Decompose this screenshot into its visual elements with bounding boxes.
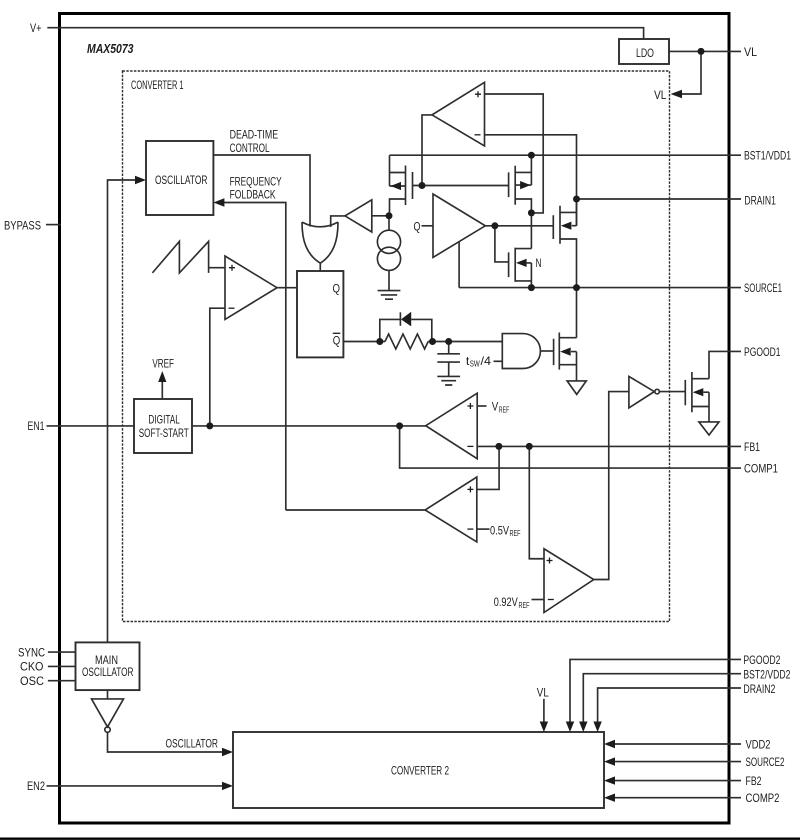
wire SOURCE2 [613,761,741,763]
svg-text:BST2/VDD2: BST2/VDD2 [743,668,790,682]
capacitor C1 [437,342,460,377]
svg-text:CONVERTER 2: CONVERTER 2 [391,764,449,778]
wire main osc to inverter [107,690,109,699]
wire driver node down to M3 gate [495,226,509,262]
op-amp 0.92VREF comparator [544,549,594,613]
node DRAIN1 junction [573,196,580,203]
wire driver output to M4 gate [485,225,553,227]
transistor M5 tSW nmos [554,288,577,381]
svg-text:FOLDBACK: FOLDBACK [230,188,276,202]
minus sign PWM comparator [229,307,235,309]
svg-text:VL: VL [537,685,549,699]
arrowhead VL into converter2 [540,722,548,733]
wire main-osc to oscillator arrow [108,180,138,642]
svg-text:PGOOD2: PGOOD2 [743,653,780,667]
node M2 drain [528,209,535,216]
transistor M1 pmos left [390,155,423,216]
plus sign top comparator [475,91,481,97]
svg-text:LDO: LDO [636,46,654,60]
svg-text:SOURCE2: SOURCE2 [746,755,785,769]
ground triangle GT1 [567,381,586,395]
wire COMP1 [400,426,741,468]
pin stub CKO [48,665,76,667]
wire Q stub to driver [422,225,434,227]
wire SOURCE1 rail [459,287,741,289]
wire gate node M1-M2 [422,185,509,187]
node VL junction [698,48,705,55]
wire oscillator to converter2 [108,732,225,752]
wire current source to ground [388,270,390,290]
Qbar overline [333,332,341,334]
node BST1 junction [528,152,535,159]
svg-text:0.92V: 0.92V [494,595,518,609]
svg-text:OSCILLATOR: OSCILLATOR [155,173,208,187]
arrowhead FB2 [604,776,615,784]
arrowhead EN2 [222,782,233,790]
arrowhead oscillator to converter2 [222,748,233,756]
svg-text:VL: VL [744,45,757,59]
node SOURCE1 right [573,284,580,291]
svg-text:0.5V: 0.5V [490,523,509,537]
svg-text:OSC: OSC [20,674,44,688]
node gate M1-M2 [419,182,426,189]
plus sign error amp [467,403,473,409]
wire PGOOD2 [570,659,741,723]
arrowhead into oscillator [135,176,146,184]
wire DRAIN1 rail [577,198,742,200]
svg-text:V+: V+ [30,21,42,35]
arrowhead into converter1 VL [671,90,683,98]
wire FB1 rail [477,445,741,447]
ground GND2 [437,376,460,385]
ground triangle GT2 [699,422,719,435]
svg-text:SOFT-START: SOFT-START [139,426,189,440]
arrowhead SOURCE2 [604,757,615,765]
minus sign top comparator [475,134,481,136]
inverter INV1 [629,376,654,408]
svg-text:SW: SW [470,359,480,369]
wire BST1/VDD1 rail [390,154,742,156]
oscillator box U-OSC1 [146,141,213,215]
wire sawtooth to PWM + [209,267,225,269]
wire EN2 [47,785,225,787]
svg-text:COMP2: COMP2 [746,791,780,805]
svg-text:FB2: FB2 [746,774,762,788]
wire VREF arrow from soft-start [161,382,163,399]
pin stub BYPASS [46,224,61,226]
wire buffer input node [372,215,389,217]
svg-text:OSCILLATOR: OSCILLATOR [166,737,219,751]
resistor R1 [385,334,428,349]
svg-text:CONVERTER 1: CONVERTER 1 [131,78,184,92]
svg-text:COMP1: COMP1 [744,462,778,476]
digital soft-start box U-DSS [134,399,192,453]
svg-text:DRAIN1: DRAIN1 [744,194,776,208]
pin stub SYNC [48,651,76,653]
wire top comparator minus input [485,135,577,226]
svg-text:VDD2: VDD2 [746,738,771,752]
LDO U-LDO [619,39,669,64]
bottom rule [0,838,800,840]
op-amp top comparator [432,82,485,146]
driver amp A1 [433,194,485,257]
transistor M4 output nmos [553,199,576,288]
current source I1 [377,230,400,253]
arrowhead frequency foldback [213,198,224,206]
svg-text:EN2: EN2 [27,779,45,793]
pin stub OSC [48,680,76,682]
wire tSW/4 stub [494,360,503,362]
transistor M6 pgood nmos [685,372,709,422]
inverter INV2 [92,699,124,727]
diode D1 bypass wire [380,319,432,341]
wire VL feed to converter1 [673,51,701,94]
arrowhead DRAIN2 down [593,722,601,733]
svg-text:BYPASS: BYPASS [4,218,41,232]
svg-text:SYNC: SYNC [18,645,45,659]
node FB1 right [526,443,533,450]
node Qbar right [445,338,452,345]
wire frequency foldback [222,203,286,511]
wire EN1 node to PWM minus [210,308,225,426]
transistor M3 arrow [516,259,527,267]
arrowhead COMP2 [604,794,615,802]
arrowhead BST2 down [579,722,587,733]
wire VDD2 [613,743,741,745]
svg-text:V: V [492,400,499,414]
wire top comparator plus input [485,94,544,213]
node Qbar left [376,338,383,345]
wire 0.5comp plus to FB1 [477,446,499,489]
transistor M4 arrow [561,222,572,230]
svg-text:REF: REF [510,528,521,538]
svg-text:DRAIN2: DRAIN2 [743,682,775,696]
converter 1 dashed box [123,71,670,622]
svg-text:Q: Q [414,220,421,234]
wire VL arrow converter2 [543,699,545,723]
op-amp error amplifier [426,393,478,459]
inverter INV2 bubble [105,727,110,732]
svg-text:REF: REF [519,600,530,610]
wire 0.5comp output foldback [286,509,425,511]
node EN1 [206,422,213,429]
arrowhead PGOOD2 down [566,722,574,733]
wire top comparator output to gate node [422,115,432,186]
svg-text:DIGITAL: DIGITAL [148,413,180,427]
svg-text:FREQUENCY: FREQUENCY [230,175,282,189]
AND gate G2 [502,334,540,369]
svg-text:OSCILLATOR: OSCILLATOR [82,665,134,679]
inverter INV1 bubble [655,389,660,394]
wire latch Qbar output [343,341,385,343]
transistor M3 nmos N [509,213,532,288]
wire BST2/VDD2 [583,674,741,723]
main oscillator box U-MOSC [76,642,140,690]
ground GND1 [378,291,401,300]
op-amp PWM comparator [225,256,277,319]
minus sign 0.92 comparator [548,599,554,601]
minus sign error amp [467,445,473,447]
wire LDO output to VL pin [669,50,741,52]
wire 0.92comp output to inverter [594,392,629,580]
wire inverter to M6 gate [660,391,685,393]
transistor M2 pmos right [509,155,532,213]
svg-text:N: N [536,256,542,270]
svg-text:EN1: EN1 [28,419,45,433]
wire PWM output to latch [277,287,297,289]
wire PGOOD1 [709,351,741,378]
node buffer input [386,212,393,219]
transistor M2 arrow [520,181,531,189]
wire FB2 [613,780,741,782]
wire OR output to latch top [319,263,321,271]
wire 0.5comp minus stub [477,528,490,530]
svg-text:PGOOD1: PGOOD1 [744,345,781,359]
node SOURCE1 left [528,284,535,291]
latch U-LATCH [297,271,343,357]
svg-text:Q: Q [333,282,341,296]
op-amp 0.5VREF comparator [425,477,477,542]
wire COMP2 [613,797,741,799]
wire error amp plus stub [477,405,486,407]
node Qbar mid [429,338,436,345]
wire FB1 to 0.92comp plus [529,446,544,558]
svg-text:FB1: FB1 [744,440,760,454]
svg-text:VL: VL [654,88,667,102]
transistor M5 arrow [560,348,571,356]
wire V+ rail [47,28,643,39]
svg-text:VREF: VREF [152,356,174,370]
wire driver bottom to SOURCE1 [458,242,460,288]
plus sign 0.5 comparator [467,486,473,492]
wire AND output to M5 gate [541,350,554,352]
svg-text:Q: Q [333,334,341,348]
arrowhead VDD2 [604,740,615,748]
transistor M1 arrow [391,182,402,190]
svg-text:MAX5073: MAX5073 [87,41,134,56]
OR gate G1 [302,222,338,263]
sawtooth ramp symbol [152,241,208,273]
wire dead-time control [213,155,310,227]
svg-text:DEAD-TIME: DEAD-TIME [230,128,279,142]
svg-text:SOURCE1: SOURCE1 [744,281,782,295]
svg-text:REF: REF [499,405,510,415]
wire EN1 to error amp [192,425,426,427]
svg-text:CKO: CKO [20,660,44,674]
diode D1 [399,312,401,326]
svg-text:/4: /4 [481,354,492,368]
plus sign PWM comparator [229,265,235,271]
svg-text:BST1/VDD1: BST1/VDD1 [744,149,791,163]
node error amp output [396,422,403,429]
node driver output [491,222,498,229]
minus sign 0.5 comparator [467,528,473,530]
svg-text:CONTROL: CONTROL [230,141,270,155]
wire node to current source [388,216,390,230]
wire EN1 line [47,425,135,427]
converter 2 box [233,732,604,808]
wire DRAIN2 [598,688,741,723]
wire buffer to OR input [331,216,345,227]
node FB1 left [495,443,502,450]
transistor M6 arrow [693,388,704,396]
arrowhead VREF [158,371,166,382]
plus sign 0.92 comparator [547,558,553,564]
buffer B1 [345,200,372,232]
wire 0.92comp minus stub [532,599,545,601]
